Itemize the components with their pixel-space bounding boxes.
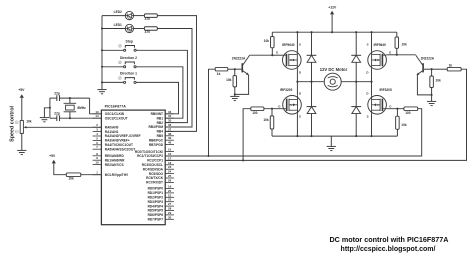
node junction motor right diode: [355, 81, 357, 83]
resistor 10k (MCLR pull-up): [66, 173, 81, 177]
wire +12V top rail: [272, 31, 397, 33]
LED D1 (LED1): [125, 24, 133, 32]
svg-text:27: 27: [168, 202, 172, 206]
pin 39 RB6/PGC: [165, 139, 174, 141]
svg-text:14: 14: [95, 114, 99, 118]
pin 5 RA3/AN3/VREF+: [93, 139, 102, 141]
svg-text:RC1/T1OSI/CCP2: RC1/T1OSI/CCP2: [137, 154, 163, 158]
motor M1 12V DC Motor: [324, 73, 341, 90]
svg-text:17: 17: [168, 156, 172, 160]
resistor 10k (right gate pull-down): [396, 109, 398, 117]
pin 28 RD5/PSP5: [165, 210, 174, 212]
svg-text:+12V: +12V: [328, 5, 337, 9]
wire bridge ground line: [272, 135, 397, 137]
wire Q5 emitter to ground: [235, 75, 249, 95]
svg-text:1k: 1k: [449, 63, 453, 67]
svg-text:38: 38: [168, 132, 172, 136]
resistor 10k (right gate pull-up): [396, 32, 398, 37]
wire base lead: [235, 68, 242, 70]
wire RC2/CCP1 net (line to left low-side gate and right driver): [165, 69, 466, 160]
node junction diode-motor left: [310, 81, 312, 83]
svg-text:37: 37: [168, 127, 172, 131]
wire ground bus (left): [101, 16, 103, 83]
wire RC1/CCP2 net (line to left driver and right low-side gate): [165, 109, 422, 156]
svg-text:13: 13: [95, 110, 99, 114]
svg-text:RB7/PGD: RB7/PGD: [149, 143, 164, 147]
resistor 10k (left gate pull-down): [271, 109, 273, 116]
wire LED1 row left: [102, 28, 125, 30]
diode D3 (top-left freewheel): [307, 54, 317, 56]
node junction left base: [234, 68, 236, 70]
svg-text:1k: 1k: [217, 72, 221, 76]
pin 20 RD1/PSP1: [165, 192, 174, 194]
wire bottom cap to OSC2: [60, 117, 102, 119]
pin 7 RA5/AN4/SS/C2OUT: [93, 148, 102, 150]
svg-text:100: 100: [252, 111, 258, 115]
wire bottom-right diode to ground line: [355, 114, 357, 137]
resistor 1k (right base): [447, 67, 461, 71]
svg-text:Direction 1: Direction 1: [120, 72, 137, 76]
svg-text:RD0/PSP0: RD0/PSP0: [148, 187, 164, 191]
wire right low gate node: [386, 108, 404, 110]
svg-text:26: 26: [168, 178, 172, 182]
capacitor 22p (top): [56, 95, 58, 101]
resistor 100 (right gate series): [404, 107, 418, 111]
node junction bus-Direction2: [101, 66, 103, 68]
svg-text:36: 36: [168, 123, 172, 127]
svg-text:Direction 2: Direction 2: [120, 56, 137, 60]
wire Q6 emitter to ground: [417, 75, 431, 95]
svg-text:18: 18: [168, 161, 172, 165]
svg-text:8MHz: 8MHz: [77, 106, 86, 110]
svg-text:10k: 10k: [226, 78, 232, 82]
svg-text:22p: 22p: [54, 112, 60, 116]
svg-text:22: 22: [168, 198, 172, 202]
svg-text:RD1/PSP1: RD1/PSP1: [148, 191, 164, 195]
node junction left high gate: [271, 54, 273, 56]
svg-text:RA2/AN2/VREF-/CVREF: RA2/AN2/VREF-/CVREF: [105, 134, 141, 138]
svg-text:LED2: LED2: [114, 10, 122, 14]
MOSFET Q1 IRF9640 (left high side): [283, 51, 302, 70]
node junction rail-+12V: [331, 31, 333, 33]
wire LED1 resistor to RB3: [157, 29, 192, 128]
pin 18 RC3/SCK/SCL: [165, 164, 174, 166]
svg-text:+5V: +5V: [49, 154, 56, 158]
svg-text:RB4: RB4: [157, 130, 164, 134]
svg-text:RD7/PSP7: RD7/PSP7: [148, 217, 164, 221]
svg-text:12V DC Motor: 12V DC Motor: [320, 67, 348, 72]
wire Q3 source to ground line: [296, 114, 298, 136]
wire caps left rail: [50, 97, 57, 99]
svg-text:D: D: [366, 71, 368, 75]
pin 2 RA0/AN0: [93, 126, 102, 128]
svg-text:RB6/PGC: RB6/PGC: [149, 138, 164, 142]
svg-text:D: D: [299, 71, 301, 75]
svg-text:D: D: [366, 92, 368, 96]
svg-text:IRF9640: IRF9640: [282, 43, 294, 47]
svg-text:RC3/SCK/SCL: RC3/SCK/SCL: [142, 163, 163, 167]
svg-text:S: S: [367, 115, 369, 119]
node junction right motor terminal: [370, 81, 372, 83]
wire +12V to rail: [331, 14, 333, 32]
pushbutton Direction 1: [124, 81, 126, 83]
ground (right driver): [427, 100, 436, 102]
node junction rail-right column: [370, 31, 372, 33]
wire rail to top-left diode: [311, 32, 313, 55]
svg-text:16: 16: [168, 152, 172, 156]
svg-text:RE0/AN5/RD: RE0/AN5/RD: [105, 154, 125, 158]
wire left low gate node: [264, 108, 283, 110]
svg-text:10k: 10k: [263, 118, 269, 122]
svg-text:RB3/PGM: RB3/PGM: [148, 125, 163, 129]
svg-text:RC6/TX/CK: RC6/TX/CK: [146, 176, 164, 180]
svg-text:10: 10: [95, 161, 99, 165]
svg-text:39: 39: [168, 136, 172, 140]
svg-text:S: S: [367, 42, 369, 46]
svg-text:RC0/T1OSO/T1CKI: RC0/T1OSO/T1CKI: [135, 150, 163, 154]
resistor 470 (LED1): [144, 27, 157, 31]
capacitor 22p (bottom): [56, 115, 58, 121]
svg-text:RD4/PSP4: RD4/PSP4: [148, 204, 164, 208]
svg-text:100: 100: [405, 111, 411, 115]
node junction right high gate: [396, 54, 398, 56]
svg-text:OSC2/CLKOUT: OSC2/CLKOUT: [105, 116, 128, 120]
svg-text:2N2222A: 2N2222A: [421, 57, 435, 61]
wire gate resistor to RC2 net: [243, 109, 251, 161]
pin 14 OSC2/CLKOUT: [93, 117, 102, 119]
pin 22 RD3/PSP3: [165, 201, 174, 203]
svg-text:http://ccspicc.blogspot.com/: http://ccspicc.blogspot.com/: [341, 246, 436, 253]
pin 27 RD4/PSP4: [165, 205, 174, 207]
wire diode to motor row: [311, 62, 313, 106]
svg-text:RD2/PSP2: RD2/PSP2: [148, 195, 164, 199]
wire top cap to OSC1: [60, 97, 90, 99]
pin 19 RD0/PSP0: [165, 188, 174, 190]
pin 36 RB3/PGM: [165, 126, 174, 128]
svg-text:RC7/RX/DT: RC7/RX/DT: [146, 181, 163, 185]
svg-text:15: 15: [168, 148, 172, 152]
node junction bus-LED1: [101, 27, 103, 29]
wire +5V to MCLR resistor: [54, 163, 67, 175]
svg-text:RE1/AN6/WR: RE1/AN6/WR: [105, 158, 125, 162]
wire pot to ground: [21, 133, 23, 150]
node junction emitter-pulldown: [234, 93, 236, 95]
svg-text:D: D: [299, 92, 301, 96]
node junction rail-right diode: [355, 31, 357, 33]
node junction bus-Stop: [101, 49, 103, 51]
node junction bottom-right diode-ground: [355, 135, 357, 137]
pushbutton Stop: [124, 49, 126, 51]
svg-text:RA3/AN3/VREF+: RA3/AN3/VREF+: [105, 139, 130, 143]
wire Direction 2 button to RB1: [136, 67, 183, 118]
pushbutton Direction 2: [124, 66, 126, 68]
pin 1 MCLR/Vpp/THV: [93, 174, 102, 176]
node junction bus-Direction1: [101, 81, 103, 83]
node junction crystal top: [69, 97, 71, 99]
svg-text:RC2/CCP1: RC2/CCP1: [147, 159, 163, 163]
svg-text:2N2222A: 2N2222A: [232, 56, 246, 60]
node junction rail-left column: [296, 31, 298, 33]
resistor 10k (left gate pull-up): [271, 32, 273, 36]
wire left gate node to MOSFET: [272, 54, 282, 56]
svg-text:LED1: LED1: [114, 23, 122, 27]
pin 9 RE1/AN6/WR: [93, 159, 102, 161]
svg-text:25: 25: [168, 174, 172, 178]
wire Direction 1 button to RB0: [136, 82, 179, 113]
wire 1k to RC1 net: [209, 69, 216, 156]
svg-text:10k: 10k: [264, 39, 270, 43]
svg-text:RB2: RB2: [157, 121, 164, 125]
wire right gate node to MOSFET: [386, 54, 396, 56]
wire motor row right: [342, 81, 372, 83]
svg-text:RD3/PSP3: RD3/PSP3: [148, 200, 164, 204]
wire MCLR resistor to pin 1: [81, 174, 102, 176]
pin 37 RB4: [165, 130, 174, 132]
wire Stop button to RB2: [136, 50, 187, 122]
ground (crystal): [40, 117, 49, 119]
node junction left low gate: [271, 108, 273, 110]
node junction right low source: [370, 135, 372, 137]
wire LED1 to resistor: [134, 28, 145, 30]
svg-text:22p: 22p: [54, 92, 60, 96]
svg-text:RA4/T0CKI/C1OUT: RA4/T0CKI/C1OUT: [105, 143, 133, 147]
svg-text:34: 34: [168, 114, 172, 118]
ground (button/LED bus): [97, 89, 106, 91]
pin 25 RC6/TX/CK: [165, 177, 174, 179]
node junction RC1 net - left 1k: [207, 155, 209, 157]
svg-text:MCLR/Vpp/THV: MCLR/Vpp/THV: [105, 173, 129, 177]
svg-text:RD5/PSP5: RD5/PSP5: [148, 209, 164, 213]
wire base node to 1k: [432, 68, 448, 70]
svg-text:IRF3205: IRF3205: [280, 88, 292, 92]
MOSFET Q2 IRF9640 (right high side): [368, 51, 387, 70]
wire 1k to base node: [228, 68, 235, 70]
node junction right emitter-pulldown: [431, 94, 433, 96]
wire Q6 collector to gate node: [397, 54, 416, 56]
svg-text:21: 21: [168, 193, 172, 197]
resistor 100 (left gate series): [251, 107, 264, 111]
svg-text:IRF9640: IRF9640: [374, 43, 386, 47]
svg-text:33: 33: [168, 110, 172, 114]
wire Q4 source to ground line: [371, 114, 373, 136]
node junction right low gate: [396, 108, 398, 110]
wire to crystal ground: [44, 108, 50, 118]
svg-text:RB0/INT: RB0/INT: [151, 112, 163, 116]
svg-text:19: 19: [168, 185, 172, 189]
svg-text:470: 470: [145, 30, 151, 34]
pin 34 RB1: [165, 117, 174, 119]
pot adjust buttons (faint): [15, 121, 18, 124]
node junction left low source: [296, 135, 298, 137]
diode D6 (bottom-right freewheel): [351, 106, 361, 108]
diode D5 (top-right freewheel): [351, 54, 361, 56]
crystal X1 8MHz: [69, 98, 71, 103]
pin 8 RE0/AN5/RD: [93, 155, 102, 157]
svg-text:10k: 10k: [402, 43, 408, 47]
wire Q5 collector to gate node: [250, 54, 273, 56]
pin 10 RE2/AN7/CS: [93, 164, 102, 166]
pin 40 RB7/PGD: [165, 144, 174, 146]
wire bus to Direction 2 button: [102, 66, 124, 68]
pin 26 RC7/RX/DT: [165, 181, 174, 183]
svg-text:S: S: [299, 115, 301, 119]
svg-text:30: 30: [168, 215, 172, 219]
svg-text:RE2/AN7/CS: RE2/AN7/CS: [105, 163, 124, 167]
svg-text:RC4/SDI/SDA: RC4/SDI/SDA: [143, 167, 164, 171]
pin 6 RA4/T0CKI/C1OUT: [93, 144, 102, 146]
svg-text:Stop: Stop: [126, 39, 133, 43]
node junction left motor terminal: [296, 81, 298, 83]
diode D4 (bottom-left freewheel): [307, 106, 317, 108]
pin 3 RA1/AN1: [93, 131, 102, 133]
LED D2 (LED2): [125, 11, 133, 19]
node junction crystal bottom: [69, 117, 71, 119]
resistor 470 (LED2): [144, 14, 157, 18]
wire rail to top-right diode: [355, 32, 357, 55]
pin 4 RA2/AN2/VREF-/CVREF: [93, 135, 102, 137]
svg-text:10k: 10k: [436, 78, 442, 82]
svg-text:RB5: RB5: [157, 134, 164, 138]
wire pot wiper to RA0: [26, 126, 102, 128]
wire Q1 drain to motor node: [296, 69, 298, 96]
svg-text:10k: 10k: [26, 120, 32, 124]
wire motor row left: [297, 81, 324, 83]
svg-text:24: 24: [168, 170, 172, 174]
node junction right base: [431, 68, 433, 70]
svg-text:RB1: RB1: [157, 116, 164, 120]
svg-text:OSC1/CLKIN: OSC1/CLKIN: [105, 112, 125, 116]
potentiometer 10k (speed control): [20, 121, 23, 134]
pin 29 RD6/PSP6: [165, 214, 174, 216]
wire rail to Q1 source: [296, 32, 298, 51]
wire ground stub: [330, 136, 332, 146]
ground (H-bridge): [327, 145, 336, 147]
pin 38 RB5: [165, 135, 174, 137]
svg-text:IRF3205: IRF3205: [380, 88, 392, 92]
svg-text:RC5/SDO: RC5/SDO: [149, 172, 164, 176]
svg-text:40: 40: [168, 141, 172, 145]
wire +5V to pot: [21, 98, 23, 121]
pin 30 RD7/PSP7: [165, 218, 174, 220]
pin 23 RC4/SDI/SDA: [165, 168, 174, 170]
node junction rail-left diode: [310, 31, 312, 33]
svg-text:10k: 10k: [69, 177, 75, 181]
wire LED2 row left: [102, 15, 125, 17]
wire top-right diode to motor row: [355, 62, 357, 106]
svg-text:470: 470: [145, 17, 151, 21]
resistor 10k (left base pull-down): [234, 69, 236, 75]
ground (left driver): [230, 95, 239, 97]
pin 16 RC1/T1OSI/CCP2: [165, 155, 174, 157]
svg-text:RD6/PSP6: RD6/PSP6: [148, 213, 164, 217]
pin 24 RC5/SDO: [165, 173, 174, 175]
wire bus to ground stub: [101, 82, 103, 89]
node junction RC2 net - left gate resistor: [242, 159, 244, 161]
pin 21 RD2/PSP2: [165, 196, 174, 198]
svg-text:10k: 10k: [401, 123, 407, 127]
pin 35 RB2: [165, 122, 174, 124]
node junction caps-ground: [49, 107, 51, 109]
svg-text:RA0/AN0: RA0/AN0: [105, 125, 119, 129]
wire Q2 drain to motor node: [371, 69, 373, 96]
wire base lead right: [424, 68, 432, 70]
wire LED2 to resistor: [134, 15, 145, 17]
svg-text:20: 20: [168, 189, 172, 193]
ground (speed pot): [17, 149, 26, 151]
pin 17 RC2/CCP1: [165, 159, 174, 161]
node junction bottom-left diode-ground: [310, 135, 312, 137]
svg-text:23: 23: [168, 165, 172, 169]
wire LED2 resistor to RB4: [157, 16, 196, 132]
svg-text:35: 35: [168, 119, 172, 123]
svg-text:PIC16F877A: PIC16F877A: [105, 105, 127, 109]
svg-text:DC motor control with PIC16F87: DC motor control with PIC16F877A: [329, 235, 448, 244]
resistor 10k (right base pull-down): [431, 69, 433, 76]
svg-text:RA5/AN4/SS/C2OUT: RA5/AN4/SS/C2OUT: [105, 147, 136, 151]
svg-text:29: 29: [168, 211, 172, 215]
svg-text:Speed control: Speed control: [10, 105, 16, 141]
wire bus to Stop button: [102, 49, 124, 51]
pin 33 RB0/INT: [165, 113, 174, 115]
svg-text:+5V: +5V: [18, 88, 25, 92]
svg-text:S: S: [299, 42, 301, 46]
wire bottom-left diode to ground line: [311, 114, 313, 137]
resistor 1k (left base): [215, 67, 228, 71]
IC U1 PIC16F877A: [101, 110, 165, 225]
svg-text:28: 28: [168, 207, 172, 211]
svg-text:RA1/AN1: RA1/AN1: [105, 130, 119, 134]
wire rail to Q2 source: [371, 32, 373, 51]
pin 15 RC0/T1OSO/T1CKI: [165, 151, 174, 153]
pin 13 OSC1/CLKIN: [93, 113, 102, 115]
wire bus to Direction 1 button: [102, 81, 124, 83]
